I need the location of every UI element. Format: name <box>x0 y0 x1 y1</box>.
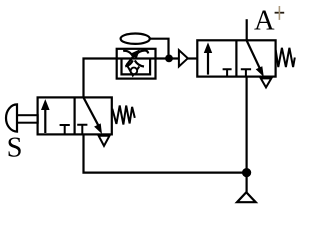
wire: bottom rail from valve S to supply junction <box>84 135 247 173</box>
throttle lower arcs <box>125 60 133 66</box>
wire: flow control output / pilot line into valve V2 <box>188 57 198 59</box>
junction dot (pilot) <box>165 55 173 63</box>
pilot actuation triangle <box>179 50 188 66</box>
valve S left box flow arrow <box>44 108 46 133</box>
wire: valve S output up and right to flow control input <box>84 59 179 98</box>
pushbutton rod <box>17 115 38 123</box>
valve V2 right box diagonal arrow to exhaust <box>247 40 260 68</box>
valve V2 left box blocked port T <box>223 69 232 76</box>
wire: valve V2 output up to A+ <box>246 19 248 40</box>
flow control valve Z1 outer box <box>117 49 156 79</box>
junction dot (supply) <box>242 168 251 177</box>
valve V2 return spring <box>276 48 295 67</box>
flow control Z1 bypass inner loop <box>122 59 151 75</box>
label + (superscript) <box>275 6 285 20</box>
valve S exhaust triangle <box>99 136 110 146</box>
valve S body (3/2 pushbutton valve) <box>38 97 112 134</box>
throttle upper arcs <box>123 51 133 56</box>
valve V2 exhaust triangle <box>261 78 272 87</box>
wire: supply from source through junction to valve V2 <box>246 77 248 192</box>
valve S divider <box>73 97 75 134</box>
valve V2 left box flow arrow <box>207 51 209 75</box>
valve V2 divider <box>235 40 237 76</box>
check valve seat (V) <box>128 66 140 75</box>
throttle adjustment arrow <box>126 56 133 65</box>
valve S return spring <box>112 106 135 125</box>
compressed air source triangle <box>237 192 256 202</box>
svg-text:S: S <box>7 133 23 164</box>
valve S left box blocked port T <box>60 125 70 134</box>
check valve ball circle <box>131 68 138 75</box>
pushbutton head (semicircle) <box>6 104 17 131</box>
valve S right box blocked port T <box>77 125 87 135</box>
wire: reservoir to pilot junction <box>150 39 169 59</box>
svg-text:A: A <box>254 6 275 37</box>
reservoir ellipse <box>121 34 150 44</box>
valve V2 right box blocked port T <box>241 69 251 76</box>
valve V2 body (3/2 pilot valve) <box>197 40 275 76</box>
valve S right box diagonal arrow to exhaust <box>84 98 99 126</box>
